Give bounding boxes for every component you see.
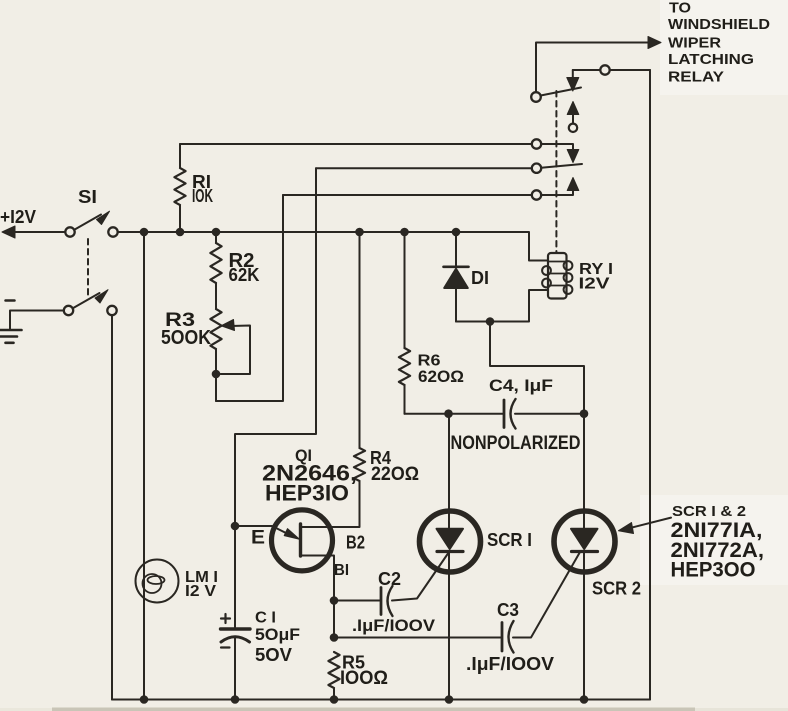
terminal circle — [600, 65, 609, 74]
svg-text:I2 V: I2 V — [185, 583, 216, 600]
coil bottom lead — [456, 290, 548, 322]
svg-text:SCR I: SCR I — [487, 530, 532, 550]
transistor Q1 (UJT 2N2646) — [272, 510, 333, 571]
svg-text:5OOK: 5OOK — [161, 327, 211, 349]
svg-text:NONPOLARIZED: NONPOLARIZED — [451, 433, 581, 454]
diode D1 — [455, 232, 457, 267]
junction dot — [176, 228, 185, 237]
svg-text:C2: C2 — [378, 569, 401, 589]
wire coil/D1 junction down to C4 line — [490, 322, 584, 414]
svg-text:C I: C I — [255, 610, 276, 627]
relay mechanical link (dashed) — [555, 91, 557, 252]
svg-text:22OΩ: 22OΩ — [371, 464, 419, 485]
junction dot — [444, 409, 453, 418]
left edge vertical wire — [111, 315, 113, 699]
wire rail to lamp LM1 to bottom — [143, 232, 145, 700]
lamp LM1 — [136, 560, 179, 603]
open throw arrow + terminal — [572, 113, 574, 123]
svg-text:DI: DI — [471, 268, 489, 288]
wire to C3 — [334, 637, 501, 639]
svg-text:LATCHING: LATCHING — [668, 51, 754, 68]
svg-text:IOOΩ: IOOΩ — [340, 668, 388, 689]
C3 to SCR2 gate — [513, 552, 580, 638]
junction dot — [355, 228, 364, 237]
resistor R1 — [179, 144, 181, 168]
junction dot — [212, 370, 221, 379]
junction dot — [580, 409, 589, 418]
svg-text:E: E — [251, 528, 265, 549]
svg-text:BI: BI — [334, 562, 349, 579]
svg-text:62OΩ: 62OΩ — [418, 367, 464, 386]
+12V feed wire with arrow — [14, 231, 65, 233]
resistor R4 — [359, 232, 361, 448]
B1 lead — [301, 556, 335, 601]
right-side vertical wire — [649, 70, 651, 700]
SCR1 cathode down — [448, 552, 450, 700]
potentiometer R3 — [210, 309, 221, 349]
junction dot — [231, 695, 240, 704]
svg-text:62K: 62K — [229, 265, 260, 285]
svg-text:RELAY: RELAY — [668, 69, 724, 86]
SCR2 cathode down — [583, 552, 585, 700]
ground symbol — [0, 329, 22, 332]
svg-text:C4, IμF: C4, IμF — [489, 376, 553, 395]
svg-text:TO: TO — [669, 0, 691, 17]
svg-text:SCR 2: SCR 2 — [592, 579, 641, 599]
+12V rail — [118, 232, 548, 261]
junction dot — [212, 228, 221, 237]
capacitor C1 (electrolytic) — [221, 627, 251, 630]
capacitor C2 — [380, 588, 383, 615]
junction dot — [140, 695, 149, 704]
junction dot — [452, 228, 461, 237]
relay contact fixed line (top) — [573, 69, 650, 71]
svg-text:IOK: IOK — [192, 186, 213, 206]
junction dot — [330, 633, 339, 642]
wire from contact line 2 to Q1 emitter node — [235, 168, 316, 627]
junction dot — [486, 317, 495, 326]
wire from contact line 3 to R3 bottom — [216, 195, 283, 401]
R3 wiper — [221, 326, 251, 375]
resistor R2 — [215, 232, 217, 243]
switch S1 pole A — [65, 227, 74, 236]
ground/bottom rail — [112, 699, 650, 701]
svg-text:SCR I & 2: SCR I & 2 — [672, 503, 746, 520]
S1 mechanical link (dashed) — [87, 239, 89, 295]
junction dot — [400, 228, 409, 237]
C2 to SCR1 gate — [392, 552, 449, 601]
contact blade (middle) — [541, 164, 582, 168]
wire B1 node down — [333, 601, 335, 638]
svg-text:I2V: I2V — [579, 276, 610, 293]
resistor R5 — [328, 652, 339, 688]
svg-text:.IμF/IOOV: .IμF/IOOV — [466, 654, 554, 674]
svg-text:5OμF: 5OμF — [255, 625, 300, 644]
svg-text:+I2V: +I2V — [0, 207, 36, 227]
paper tint patches — [660, 0, 788, 95]
capacitor C3 — [501, 623, 504, 652]
junction dot — [330, 695, 339, 704]
junction dot — [445, 695, 454, 704]
contact line 1 (from R1 top) — [180, 144, 573, 151]
emitter lead — [235, 526, 291, 536]
minus tick — [6, 299, 15, 302]
plus sign — [221, 614, 230, 623]
callout arrow to SCR2 — [628, 518, 671, 529]
B2 lead inside — [301, 526, 339, 528]
capacitor C4 — [503, 400, 506, 428]
wire to SCR1 anode — [448, 414, 450, 528]
svg-text:C3: C3 — [497, 600, 519, 620]
svg-text:.IμF/IOOV: .IμF/IOOV — [352, 616, 436, 635]
ground lead — [10, 311, 64, 330]
junction dot — [330, 596, 339, 605]
svg-text:SI: SI — [78, 187, 97, 207]
svg-text:HEP3OO: HEP3OO — [671, 559, 756, 582]
fixed contact arrow (down) — [572, 70, 574, 79]
svg-text:HEP3IO: HEP3IO — [265, 481, 349, 506]
wire to windshield wiper relay with arrow — [536, 43, 649, 93]
junction dot — [231, 522, 240, 531]
minus sign — [221, 646, 230, 648]
wire B1 to C2 — [334, 600, 380, 602]
svg-text:WINDSHIELD: WINDSHIELD — [668, 16, 770, 33]
svg-text:5OV: 5OV — [255, 645, 292, 665]
SCR1 — [420, 511, 481, 572]
svg-text:B2: B2 — [346, 533, 365, 553]
switch S1 pole B — [64, 306, 73, 315]
relay contact blade (top) — [531, 92, 541, 102]
junction dot — [140, 228, 149, 237]
contact line 3 (lower throw, up arrow) — [283, 189, 573, 195]
wire R6 bottom to C4 — [405, 413, 504, 415]
relay coil RY1 — [548, 253, 567, 299]
SCR2 — [554, 511, 615, 572]
svg-text:WIPER: WIPER — [668, 35, 721, 52]
resistor R6 — [404, 232, 406, 348]
wire to SCR2 anode — [583, 414, 585, 528]
junction dot — [580, 695, 589, 704]
